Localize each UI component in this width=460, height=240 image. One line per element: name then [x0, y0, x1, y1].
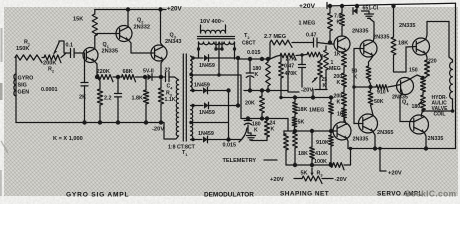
svg-text:910: 910: [377, 90, 386, 96]
svg-text:22: 22: [165, 68, 171, 74]
wire QB base feedback drop: [353, 49, 355, 124]
svg-text:150: 150: [409, 68, 418, 74]
svg-text:C4: C4: [167, 84, 174, 91]
wire +20V servo: [380, 149, 386, 172]
svg-text:+20V: +20V: [270, 177, 284, 183]
svg-text:0.015: 0.015: [247, 50, 261, 56]
resistor 2K: [97, 77, 100, 89]
ground 651-C1: [365, 13, 374, 15]
wire QD-left emitter: [346, 138, 348, 149]
wire QB collector: [369, 18, 374, 42]
wire QD-right emitter: [373, 131, 375, 148]
wire 180 to QE collector: [421, 110, 423, 117]
resistor 20K: [261, 91, 263, 97]
svg-text:5K: 5K: [298, 120, 305, 126]
svg-text:T2: T2: [244, 33, 250, 40]
svg-text:651-CI: 651-CI: [363, 6, 379, 12]
svg-text:R3: R3: [317, 171, 324, 178]
resistor 18K upper: [294, 98, 296, 103]
wire QD-left collector: [344, 118, 346, 124]
capacitor 180K upper: [249, 59, 251, 73]
svg-text:K: K: [337, 80, 341, 86]
demod top rail: [238, 58, 270, 60]
wire shaping top tie: [312, 90, 314, 98]
resistor 68K: [122, 75, 136, 82]
svg-text:0.015: 0.015: [223, 143, 237, 149]
svg-text:2N332: 2N332: [134, 25, 150, 31]
svg-text:470K: 470K: [285, 71, 298, 77]
resistor left lower: [284, 134, 289, 150]
svg-text:2N335: 2N335: [373, 35, 389, 41]
transformer T1 core: [182, 54, 184, 141]
svg-text:K: K: [255, 72, 259, 78]
svg-text:1 MEG: 1 MEG: [299, 21, 316, 27]
svg-text:150K: 150K: [16, 46, 29, 52]
resistor 200K chain lower: [343, 87, 345, 92]
svg-text:Q4: Q4: [402, 100, 409, 107]
ground demodulator: [248, 133, 251, 135]
wire QD-right base: [354, 123, 363, 125]
wire R1-R2: [42, 57, 44, 59]
shaping mid wire: [284, 130, 337, 132]
wire QE emitter: [424, 132, 426, 148]
capacitor 0.47 coupling: [292, 42, 313, 44]
svg-text:1N459: 1N459: [194, 83, 210, 89]
transistor QD-left 2N335 output: [333, 122, 351, 140]
capacitor 0.0001: [84, 53, 86, 83]
svg-text:1N459: 1N459: [199, 110, 215, 116]
resistor 1MEG mid: [325, 46, 327, 50]
svg-text:GYRO SIG AMPL: GYRO SIG AMPL: [66, 192, 129, 199]
svg-text:TELEMETRY: TELEMETRY: [223, 158, 257, 164]
svg-text:410K: 410K: [315, 151, 328, 157]
svg-text:220K: 220K: [97, 69, 110, 75]
resistor 5K: [292, 117, 297, 127]
diode D1 1N459: [193, 57, 203, 59]
svg-text:2.7 MEG: 2.7 MEG: [264, 34, 286, 40]
transistor QE 2N335 output right: [410, 115, 429, 134]
svg-text:+20V: +20V: [388, 171, 402, 177]
capacitor 22 / C4: [165, 73, 167, 82]
+20V rail left: [95, 9, 166, 11]
gyro signal generator source: [15, 58, 17, 123]
transformer T2 core: [198, 36, 235, 38]
resistor 27K: [270, 56, 280, 60]
wire Q2 collector: [127, 10, 129, 28]
wire Q3 emitter: [161, 60, 163, 78]
scan artifact left edge 2: [0, 83, 3, 100]
capacitor 2.2: [117, 77, 119, 94]
resistor series mid: [307, 52, 322, 59]
hydraulic valve coil: [455, 3, 457, 148]
transistor QD-right 2N365 output: [359, 114, 378, 133]
svg-text:K: K: [337, 20, 341, 26]
svg-text:-20V: -20V: [335, 177, 347, 183]
resistor 100K: [329, 163, 344, 170]
wire T1 CT-B out: [191, 122, 229, 124]
demod lower rail: [241, 118, 288, 120]
wire Q4 collector: [410, 75, 423, 79]
shaping bottom wire: [294, 164, 329, 166]
potentiometer 25K: [318, 61, 323, 77]
wire T2 tap down: [218, 42, 220, 75]
resistor 24K: [266, 119, 268, 122]
svg-text:SeekIC.com: SeekIC.com: [405, 189, 456, 199]
wire R2 out: [61, 53, 66, 58]
resistor 180 output: [421, 95, 426, 110]
svg-text:0.47: 0.47: [306, 33, 317, 39]
+20V rail right: [327, 3, 456, 6]
resistor 150: [421, 78, 426, 92]
wire QE base: [400, 121, 414, 123]
wire demod lower out: [229, 139, 242, 141]
demod bus D1-D3: [237, 58, 239, 106]
svg-text:SHAPING NET: SHAPING NET: [280, 191, 329, 198]
node Q3 emitter junction: [159, 75, 163, 79]
wire demod to shaping: [288, 59, 299, 92]
svg-text:27K: 27K: [286, 57, 296, 63]
wire QB base: [354, 48, 364, 50]
node Q1 emitter junction: [95, 75, 99, 79]
wire QC base: [394, 47, 417, 73]
resistor 410K: [311, 131, 313, 147]
resistor R3 1.1K: [160, 77, 162, 88]
transistor QC 2N335 upper right: [413, 38, 430, 55]
resistor 2.7MEG: [269, 43, 271, 60]
svg-text:2N335: 2N335: [353, 137, 369, 143]
resistor 200K chain upper: [343, 67, 345, 73]
potentiometer R2 200K: [44, 55, 61, 63]
node 2.2 junction: [116, 75, 120, 79]
transistor Q2 2N332: [116, 26, 132, 42]
scan artifact left edge 1: [1, 28, 3, 62]
svg-text:R2: R2: [48, 67, 55, 74]
svg-text:2N335: 2N335: [102, 49, 118, 55]
wire QC emitter: [426, 54, 427, 61]
shaping block top wire: [281, 97, 333, 99]
wire Q1 collector to Q2 base: [95, 34, 120, 37]
svg-text:15K: 15K: [73, 17, 83, 23]
diode D3 1N459: [193, 105, 203, 107]
svg-text:20K: 20K: [245, 101, 255, 107]
svg-text:50K: 50K: [374, 99, 384, 105]
svg-text:DEMODULATOR: DEMODULATOR: [204, 192, 254, 199]
resistor 910 servo: [376, 85, 388, 92]
diode 651-C1 clamp: [356, 6, 358, 11]
diode D2 1N459: [193, 90, 202, 92]
svg-text:220: 220: [428, 59, 437, 65]
svg-text:K: K: [254, 128, 258, 134]
svg-text:5V-II: 5V-II: [143, 69, 154, 75]
resistor 50K lower: [370, 87, 372, 91]
potentiometer 5K R3: [294, 178, 302, 180]
svg-text:K: K: [337, 100, 341, 106]
svg-text:+20V: +20V: [299, 3, 316, 10]
svg-text:1N459: 1N459: [199, 63, 215, 69]
resistor 50K QB emitter: [369, 56, 374, 67]
svg-text:2N343: 2N343: [165, 39, 181, 45]
svg-text:2N365: 2N365: [377, 130, 393, 136]
wire QC collector box: [426, 22, 453, 63]
transistor QB 2N335 diff right: [360, 40, 377, 57]
svg-text:MEG: MEG: [329, 66, 341, 72]
transistor QA 2N335 diff left: [334, 36, 350, 52]
svg-text:18K: 18K: [398, 41, 408, 47]
wire Q4 emitter: [400, 94, 403, 122]
resistor 220K: [97, 75, 113, 82]
svg-text:T1: T1: [182, 150, 188, 157]
wire QA emitter: [344, 51, 346, 53]
wire Q2 emitter to Q3 base: [128, 40, 154, 53]
svg-text:-20V: -20V: [152, 127, 164, 133]
transformer T1 secondary lower: [191, 106, 193, 140]
svg-text:18K: 18K: [298, 151, 308, 157]
resistor 18K servo: [393, 6, 395, 37]
wire Q3 collector: [161, 10, 164, 47]
wire output node: [423, 110, 453, 113]
svg-text:C8CT: C8CT: [242, 41, 256, 47]
svg-text:2N335: 2N335: [399, 23, 415, 29]
servo emitter rail: [348, 148, 456, 150]
wire T1 CT-A out: [191, 75, 241, 119]
svg-text:1MEG: 1MEG: [309, 108, 324, 114]
svg-text:1K: 1K: [337, 112, 344, 118]
svg-text:K: K: [354, 75, 358, 81]
wire demod lower to shaping: [287, 119, 289, 132]
svg-text:+20V: +20V: [167, 6, 182, 13]
scan artifact left edge 4: [0, 170, 2, 196]
resistor 1MEG top: [329, 6, 331, 13]
svg-text:0.0001: 0.0001: [41, 87, 58, 93]
resistor 220: [425, 60, 430, 76]
svg-text:910K: 910K: [316, 140, 329, 146]
transformer T1 primary winding: [175, 77, 179, 80]
resistor 1.8K: [145, 77, 147, 90]
resistor 1K chain top: [342, 52, 347, 67]
svg-text:5K: 5K: [301, 171, 308, 177]
resistor R1 150K: [15, 55, 42, 63]
svg-text:0.47: 0.47: [284, 64, 294, 70]
svg-text:2N335: 2N335: [428, 136, 444, 142]
svg-text:1K: 1K: [334, 52, 341, 58]
wire Q1 emitter: [95, 62, 97, 78]
transformer T2 primary: [200, 25, 202, 33]
svg-text:18K: 18K: [298, 107, 308, 113]
svg-text:-20V: -20V: [301, 88, 313, 94]
capacitor 0.015 lower: [247, 119, 249, 121]
svg-text:SIG: SIG: [18, 83, 27, 89]
svg-text:0.1: 0.1: [66, 43, 74, 49]
svg-text:10V 400~: 10V 400~: [200, 19, 225, 25]
demod bus D2-D4: [228, 91, 230, 140]
svg-text:K: K: [271, 127, 275, 133]
resistor 1MEG lower: [330, 98, 332, 103]
node 1.8K junction: [143, 75, 147, 79]
resistor 470K: [280, 56, 282, 62]
resistor 1K chain bottom: [343, 106, 345, 108]
svg-text:Q2: Q2: [137, 18, 144, 25]
transformer T2 secondary: [199, 42, 235, 45]
svg-text:2N335: 2N335: [352, 29, 368, 35]
resistor 910K: [330, 131, 332, 135]
svg-text:K = X 1,000: K = X 1,000: [53, 136, 83, 142]
svg-text:1.8K: 1.8K: [132, 96, 143, 102]
transistor Q1 2N335: [83, 48, 98, 63]
transistor Q4 2N335: [397, 78, 414, 95]
resistor 18K lower: [294, 131, 296, 132]
resistor demod mid A: [267, 59, 269, 62]
svg-text:1N459: 1N459: [198, 131, 214, 137]
resistor 15K: [94, 10, 96, 15]
resistor 7.5K top: [341, 6, 343, 13]
transistor Q3 2N343: [151, 45, 167, 61]
svg-text:COIL: COIL: [434, 112, 446, 118]
svg-text:100K: 100K: [314, 159, 327, 165]
scan artifact left edge 3: [1, 141, 8, 153]
svg-text:68K: 68K: [123, 69, 133, 75]
transformer T1 secondary upper: [191, 56, 193, 91]
svg-text:GEN: GEN: [18, 90, 30, 96]
svg-text:2.2: 2.2: [104, 96, 112, 102]
demod mid rail: [244, 90, 288, 92]
wire Q1 collector: [94, 36, 96, 49]
diode D4 1N459: [193, 139, 202, 141]
diode 5V-II: [148, 74, 153, 80]
-20V rail bottom: [16, 122, 164, 124]
svg-text:2K: 2K: [79, 95, 86, 101]
svg-text:GYRO: GYRO: [18, 76, 34, 82]
wire shaping left drop: [284, 131, 286, 134]
wire 910 node: [354, 86, 376, 88]
svg-text:1.1K: 1.1K: [165, 97, 176, 103]
